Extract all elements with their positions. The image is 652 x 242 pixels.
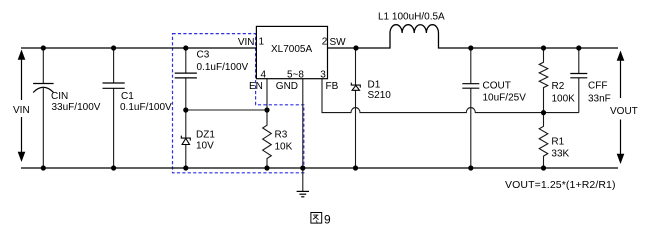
svg-text:R3: R3 [275, 130, 288, 141]
svg-text:100K: 100K [552, 93, 576, 104]
svg-text:10uF/25V: 10uF/25V [483, 93, 527, 104]
svg-text:VIN: VIN [13, 105, 30, 116]
svg-text:10V: 10V [196, 141, 214, 152]
svg-text:3: 3 [320, 70, 326, 81]
svg-text:GND: GND [276, 81, 298, 92]
svg-text:9: 9 [324, 212, 331, 226]
svg-text:VOUT=1.25*(1+R2/R1): VOUT=1.25*(1+R2/R1) [505, 179, 616, 191]
svg-text:S210: S210 [368, 90, 392, 101]
svg-text:4: 4 [261, 70, 267, 81]
svg-text:XL7005A: XL7005A [271, 44, 312, 55]
svg-text:R2: R2 [552, 81, 565, 92]
svg-text:SW: SW [330, 37, 347, 48]
svg-text:2: 2 [322, 37, 328, 48]
svg-text:1: 1 [259, 37, 265, 48]
svg-text:33K: 33K [551, 149, 569, 160]
svg-text:33uF/100V: 33uF/100V [52, 102, 101, 113]
svg-text:C3: C3 [197, 50, 210, 61]
svg-text:COUT: COUT [483, 80, 511, 91]
svg-text:EN: EN [249, 81, 263, 92]
svg-text:0.1uF/100V: 0.1uF/100V [120, 102, 172, 113]
svg-text:33nF: 33nF [588, 93, 611, 104]
svg-text:DZ1: DZ1 [196, 130, 215, 141]
svg-text:0.1uF/100V: 0.1uF/100V [197, 62, 249, 73]
svg-text:L1 100uH/0.5A: L1 100uH/0.5A [378, 12, 445, 23]
svg-text:C1: C1 [121, 91, 134, 102]
svg-text:VIN: VIN [238, 37, 255, 48]
svg-text:FB: FB [326, 81, 339, 92]
svg-text:10K: 10K [275, 142, 293, 153]
svg-text:5~8: 5~8 [287, 70, 304, 81]
svg-text:R1: R1 [551, 137, 564, 148]
svg-text:VOUT: VOUT [610, 106, 638, 117]
svg-text:CFF: CFF [588, 80, 607, 91]
svg-text:CIN: CIN [51, 91, 68, 102]
